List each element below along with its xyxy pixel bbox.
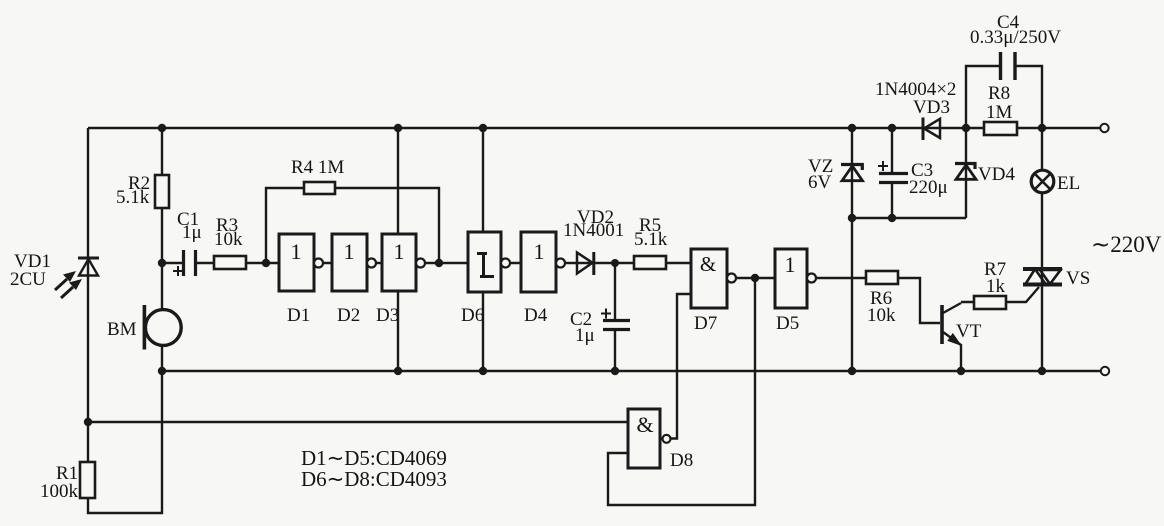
svg-text:1N4001: 1N4001 [563, 220, 624, 241]
svg-text:D6∼D8:CD4093: D6∼D8:CD4093 [301, 467, 447, 491]
svg-text:1: 1 [344, 239, 355, 264]
svg-text:2CU: 2CU [10, 269, 46, 290]
svg-text:220μ: 220μ [909, 177, 948, 198]
svg-text:D5: D5 [776, 313, 799, 334]
svg-text:VT: VT [956, 321, 982, 342]
svg-text:D8: D8 [670, 450, 693, 471]
svg-text:R4 1M: R4 1M [291, 157, 344, 178]
svg-text:1: 1 [785, 252, 796, 277]
svg-text:10k: 10k [214, 229, 243, 250]
svg-text:1: 1 [394, 239, 405, 264]
svg-text:R8: R8 [988, 83, 1010, 104]
svg-text:10k: 10k [867, 305, 896, 326]
svg-text:VD3: VD3 [913, 97, 950, 118]
svg-text:VS: VS [1066, 268, 1090, 289]
svg-text:D1: D1 [287, 305, 310, 326]
svg-text:D4: D4 [524, 305, 548, 326]
svg-text:∼220V: ∼220V [1091, 232, 1162, 257]
svg-text:1μ: 1μ [575, 325, 595, 346]
svg-text:0.33μ/250V: 0.33μ/250V [970, 27, 1061, 48]
svg-text:5.1k: 5.1k [116, 187, 150, 208]
svg-text:1μ: 1μ [182, 222, 202, 243]
svg-text:100k: 100k [40, 481, 79, 502]
svg-text:D2: D2 [337, 305, 360, 326]
svg-text:&: & [636, 412, 653, 437]
svg-text:VD4: VD4 [978, 164, 1015, 185]
svg-text:&: & [700, 252, 716, 276]
svg-text:6V: 6V [808, 172, 832, 193]
svg-text:EL: EL [1057, 173, 1080, 194]
svg-text:1: 1 [534, 239, 545, 264]
svg-text:1: 1 [291, 239, 302, 264]
svg-text:D3: D3 [376, 305, 399, 326]
svg-text:D6: D6 [461, 305, 484, 326]
svg-text:1M: 1M [986, 102, 1013, 123]
svg-text:BM: BM [107, 319, 137, 340]
svg-text:1k: 1k [986, 276, 1006, 297]
svg-text:5.1k: 5.1k [634, 229, 668, 250]
svg-text:D7: D7 [694, 313, 717, 334]
